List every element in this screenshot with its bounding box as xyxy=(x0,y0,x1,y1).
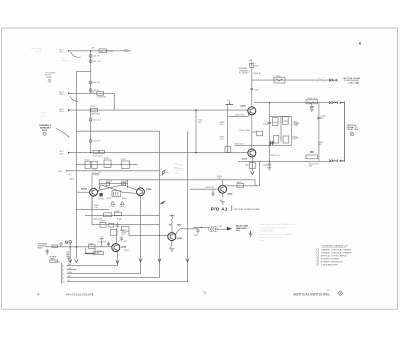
SEC6: bottom connector, legend, titles xyxy=(37,243,352,296)
svg-text:Q334: Q334 xyxy=(227,192,233,195)
wire Q328 collector xyxy=(116,228,118,244)
wire upper signal xyxy=(254,102,331,104)
resistor R126 xyxy=(104,158,111,167)
node xyxy=(269,145,270,146)
wire upper output xyxy=(252,79,331,81)
svg-text:NUMBERED DIAGRAM LIST: NUMBERED DIAGRAM LIST xyxy=(322,245,349,248)
svg-text:CR130: CR130 xyxy=(98,198,105,200)
ground C318 xyxy=(267,168,271,170)
svg-text:Scanned and submitted to BAMA: Scanned and submitted to BAMA archive xyxy=(259,223,296,226)
wire lower gate bar xyxy=(99,183,127,185)
power +15 rail label xyxy=(68,174,75,181)
wire grid top xyxy=(269,116,291,118)
wire Q336 base xyxy=(129,234,168,236)
capacitor C322 xyxy=(306,151,319,167)
test jack TP2 xyxy=(69,240,72,247)
registration cross xyxy=(37,293,40,296)
svg-text:<2>): <2>) xyxy=(236,229,241,232)
resistor R118 xyxy=(96,92,107,99)
wire Q336 emitter xyxy=(171,241,173,247)
faint pencil note top-left xyxy=(31,48,42,54)
capacitor C318 xyxy=(263,161,272,167)
label NORMAL CHANNEL xyxy=(239,67,251,74)
SEC5: right output network xyxy=(254,98,359,242)
svg-text:GND DC: GND DC xyxy=(62,60,70,62)
wire hook xyxy=(128,231,130,235)
switch knob symbol xyxy=(43,132,46,135)
connector J1 CH1 input label xyxy=(59,49,64,53)
inductor L338 xyxy=(169,215,175,225)
inductor L310 xyxy=(274,76,285,83)
wire corner xyxy=(92,172,99,174)
node xyxy=(90,50,91,51)
legend row 1 xyxy=(317,248,352,251)
wire Q318 base xyxy=(77,191,90,193)
wire CH1 input xyxy=(69,50,131,52)
wire lower output xyxy=(238,160,331,162)
label T50 xyxy=(169,223,183,226)
resistor R136 xyxy=(115,212,123,220)
svg-text:T340: T340 xyxy=(177,223,183,226)
capacitor C44 xyxy=(89,60,101,63)
wire into Q336 xyxy=(171,225,173,233)
arrow drop Q326 xyxy=(139,259,142,262)
svg-text:43A,B: 43A,B xyxy=(81,188,87,191)
svg-text:(-8V): (-8V) xyxy=(120,206,125,208)
node xyxy=(66,170,67,171)
wire Q334 base xyxy=(190,188,219,190)
transistor Q328 xyxy=(112,244,120,252)
svg-text:CHANNEL 2 VERTICAL PREAMP: CHANNEL 2 VERTICAL PREAMP xyxy=(321,251,352,254)
svg-text:A SWEEP GENERATOR: A SWEEP GENERATOR xyxy=(321,260,344,263)
arrow drop Q328 xyxy=(116,260,119,263)
wire CH2 lower bus xyxy=(69,152,248,154)
svg-text:R306 C306: R306 C306 xyxy=(240,130,251,132)
capacitor C150 xyxy=(120,236,128,243)
svg-text:DELAY LINE: DELAY LINE xyxy=(347,128,359,131)
svg-text:tek ocr: tek ocr xyxy=(259,239,265,242)
capacitor C302 label xyxy=(198,120,204,124)
svg-text:VERTICAL OUTPUT AMPLIF: VERTICAL OUTPUT AMPLIF xyxy=(321,254,348,257)
node xyxy=(159,235,160,236)
wire row C xyxy=(92,224,160,226)
svg-text:Q328: Q328 xyxy=(121,246,127,248)
label R304 xyxy=(220,122,226,126)
resistor R317 xyxy=(245,163,255,169)
resistor R138 xyxy=(109,223,114,227)
switch flag S140 xyxy=(159,201,166,205)
svg-text:464 OSCILLOSCOPE: 464 OSCILLOSCOPE xyxy=(66,292,94,296)
resistor R125 xyxy=(92,161,97,168)
resistor R120 xyxy=(90,108,101,115)
ground C316 xyxy=(310,109,314,111)
capacitor C46 xyxy=(89,81,100,84)
wire CH1 to amp xyxy=(69,92,114,94)
legend row 5 xyxy=(317,260,344,263)
resistor R48 xyxy=(99,49,106,53)
label R318 xyxy=(294,123,300,127)
wire gate bar drops xyxy=(99,180,127,188)
capacitor C148 xyxy=(107,241,110,247)
svg-text:Q304: Q304 xyxy=(240,105,246,108)
svg-text:TRIGGER PREAMP: TRIGGER PREAMP xyxy=(321,257,340,260)
wire row B xyxy=(85,214,160,216)
wire divider drop xyxy=(195,110,197,153)
wire emitter chain xyxy=(251,115,253,149)
svg-text:CHANNEL 1 VERTICAL PREAMP: CHANNEL 1 VERTICAL PREAMP xyxy=(321,248,352,251)
label cluster gray xyxy=(175,168,185,174)
svg-text:C123 C125: C123 C125 xyxy=(92,155,103,157)
resistor R130 xyxy=(112,191,121,197)
node xyxy=(269,102,270,103)
capacitor C145 xyxy=(66,251,72,259)
wire resistor row xyxy=(76,164,137,166)
switch box S146 xyxy=(50,260,58,262)
transistor Q326 xyxy=(137,188,145,196)
svg-text:CR129: CR129 xyxy=(121,181,128,183)
node xyxy=(269,161,270,162)
bus signal labels xyxy=(68,264,73,282)
resistor R313 xyxy=(283,136,289,143)
resistor R307 xyxy=(225,146,231,152)
legend row 2 xyxy=(317,251,352,254)
svg-text:cal 2mV: cal 2mV xyxy=(34,52,42,54)
svg-text:C122 2-8: C122 2-8 xyxy=(93,120,102,122)
svg-text:S130: S130 xyxy=(42,130,48,132)
svg-text:C42 18: C42 18 xyxy=(93,56,100,58)
wire cross couple A xyxy=(97,185,137,191)
svg-text:Date: April 2003: Date: April 2003 xyxy=(259,230,274,233)
capacitor C139 xyxy=(116,223,119,228)
wire collector to rail xyxy=(227,161,260,185)
node xyxy=(70,246,71,247)
node xyxy=(195,109,197,111)
svg-text:maintained by Jeff, tek manual: maintained by Jeff, tek manuals xyxy=(259,226,287,229)
capacitor C48 xyxy=(89,89,100,92)
interconnect bracket xyxy=(340,101,345,162)
wire drop xyxy=(113,93,115,110)
diode CR129 xyxy=(121,181,128,186)
capacitor C122 xyxy=(89,118,102,121)
diode CR132 xyxy=(120,201,124,204)
wire CH2 bus xyxy=(69,109,248,111)
SEC1: top-left attenuator xyxy=(31,48,248,259)
capacitor C320 xyxy=(317,116,326,120)
capacitor C123 xyxy=(92,150,104,157)
pencil scribble xyxy=(173,164,184,169)
wire Q334 labels above xyxy=(217,176,223,180)
connector J2 CH1 out label xyxy=(59,92,64,96)
wire Q318 emitter xyxy=(91,196,93,209)
transistor Q318 xyxy=(90,188,98,196)
wire grid right rail xyxy=(290,117,292,146)
label cluster xyxy=(92,170,101,173)
label norm trig xyxy=(50,257,57,261)
label R316 right xyxy=(293,136,299,140)
svg-text:Q314: Q314 xyxy=(242,157,248,160)
svg-text:Note that the images are for p: Note that the images are for personal xyxy=(259,233,293,236)
svg-text:R303 750: R303 750 xyxy=(236,114,246,116)
wire row A xyxy=(76,208,109,210)
svg-text:1.8k: 1.8k xyxy=(217,178,221,180)
wire Q334 emitter xyxy=(222,193,224,197)
capacitor C312 xyxy=(269,141,274,145)
inductor R316 L316 xyxy=(306,98,318,104)
resistor R127 xyxy=(121,159,129,168)
label VOLTS/DIV switch xyxy=(45,72,56,82)
svg-text:VERTICAL PREAMP BOARD: VERTICAL PREAMP BOARD xyxy=(234,208,261,211)
transistor Q304 xyxy=(248,107,256,115)
svg-text:1x: 1x xyxy=(99,172,101,174)
wire bus 5 xyxy=(67,281,188,283)
capacitor C138 xyxy=(100,221,106,228)
svg-text:S145: S145 xyxy=(38,247,44,249)
wire Q314 emitter xyxy=(251,157,253,171)
node xyxy=(90,152,91,153)
diode CR130 xyxy=(98,193,105,200)
inductor L134 xyxy=(92,213,111,221)
SEC2: gate cluster xyxy=(68,131,255,282)
wire lower row xyxy=(67,170,160,172)
svg-text:(+15V): (+15V) xyxy=(109,206,115,208)
capacitor C340 xyxy=(194,229,200,237)
node xyxy=(68,152,70,154)
inductor L146 xyxy=(88,244,95,249)
board divider bar xyxy=(231,206,233,211)
wire grid bottom xyxy=(235,144,292,146)
capacitor C144 xyxy=(46,249,49,255)
node xyxy=(76,246,77,247)
switch label VERT MODE xyxy=(39,124,52,132)
arrow rail left A xyxy=(69,259,72,262)
label test point xyxy=(94,205,100,209)
resistor R150 xyxy=(110,230,125,237)
legend row 6 xyxy=(317,263,339,266)
resistor R320 xyxy=(318,142,324,146)
wire grid left rail xyxy=(268,103,270,162)
svg-text:mod sweep: mod sweep xyxy=(31,48,42,50)
test jack J145 xyxy=(60,243,62,247)
resistor R336 xyxy=(237,182,244,188)
connector P130 body xyxy=(61,263,63,284)
switch wiper arc S110 xyxy=(71,52,81,57)
legend row 3 xyxy=(317,254,348,257)
connector arrows upper xyxy=(329,79,337,82)
connector J3 CH2 input label xyxy=(59,109,64,113)
ground Q334 xyxy=(221,202,225,204)
svg-text:Q336: Q336 xyxy=(177,238,183,240)
wire bus 4 xyxy=(67,277,160,279)
svg-text:R332 133: R332 133 xyxy=(205,187,215,189)
capacitor C124 xyxy=(89,140,101,143)
wire divider rail xyxy=(318,103,320,161)
wire grid mid rail xyxy=(280,117,282,142)
capacitor C332 xyxy=(212,189,215,196)
connector arrows lower right xyxy=(329,159,337,162)
wire to delay line xyxy=(217,228,227,230)
svg-text:R309 150: R309 150 xyxy=(235,144,245,146)
svg-text:1 MΩ: 1 MΩ xyxy=(41,113,46,115)
node xyxy=(201,227,202,228)
svg-text:Z AXIS AMPLIFIER: Z AXIS AMPLIFIER xyxy=(321,263,339,266)
svg-text:C120 R120: C120 R120 xyxy=(90,114,101,116)
switch wiper arc xyxy=(56,129,70,138)
wire Q334 collector up xyxy=(222,180,224,185)
SEC4: Q304 Q314 output column xyxy=(190,60,362,211)
svg-text:Q326: Q326 xyxy=(146,189,152,191)
resistor R312 xyxy=(274,135,279,143)
connector P340 coax pair xyxy=(209,226,218,231)
transistor Q334 xyxy=(219,185,227,193)
svg-text:C124 8.2: C124 8.2 xyxy=(93,141,102,143)
resistor R140 xyxy=(121,226,129,234)
svg-text:P/O A1: P/O A1 xyxy=(211,207,228,212)
arrow to delay line xyxy=(227,227,232,231)
wire bias rail xyxy=(226,105,228,153)
wire bus 1 xyxy=(67,265,118,267)
label VERTICAL SIGNAL xyxy=(347,124,359,131)
faint pencil note xyxy=(41,113,47,118)
stamp pencil block xyxy=(259,223,296,242)
arrow rail left B xyxy=(75,259,78,262)
svg-text:CR128: CR128 xyxy=(106,181,113,183)
ground shield xyxy=(249,231,253,236)
legend title xyxy=(322,245,349,248)
wire Q304 base xyxy=(227,113,248,116)
label trigger source xyxy=(38,243,48,249)
wire delay stub xyxy=(193,226,210,228)
svg-text:use only and not for resale: use only and not for resale xyxy=(259,236,283,239)
wire Q336 collector xyxy=(175,229,198,235)
wire bus 2 xyxy=(67,269,77,271)
svg-text:VERTICAL SWITCHING: VERTICAL SWITCHING xyxy=(293,292,330,296)
wire rail left B drop xyxy=(69,243,71,263)
capacitor C40 on input wire xyxy=(105,50,128,52)
ground Q336 xyxy=(170,249,175,251)
wire rail Q326 drop xyxy=(140,196,142,274)
label C314 right xyxy=(293,121,300,125)
wire upper gate bar xyxy=(99,179,255,181)
power +15 stub xyxy=(99,237,103,247)
test jack TP1 xyxy=(65,241,68,244)
transistor Q336 xyxy=(168,233,176,241)
label DELAY LINE xyxy=(236,224,249,232)
symbol coax xyxy=(350,132,354,136)
label above connector xyxy=(66,253,70,257)
resistor R314 xyxy=(272,117,278,125)
resistor R154 xyxy=(85,252,104,255)
wire rail center xyxy=(187,131,189,282)
faint pencil note xyxy=(62,57,70,63)
arrow drop rail188 xyxy=(186,259,189,262)
svg-text:(SEL): (SEL) xyxy=(175,172,180,174)
wire cross couple B xyxy=(97,185,137,194)
board edge wire xyxy=(76,131,159,278)
node CH1 xyxy=(68,50,70,52)
arrow drop rail160 xyxy=(158,259,161,262)
wire Q328 base line xyxy=(46,246,112,248)
svg-text:(V. MODE): (V. MODE) xyxy=(239,73,249,75)
test point flag TP130 xyxy=(162,171,169,175)
svg-text:2.4k: 2.4k xyxy=(220,139,224,141)
capacitor C314 xyxy=(263,122,271,125)
wire rail x92 xyxy=(91,173,93,224)
svg-text:R308 1k: R308 1k xyxy=(253,73,260,75)
page mark top right xyxy=(359,42,360,44)
connector arrows upper right xyxy=(329,101,337,104)
label VERT SIG A xyxy=(343,77,362,85)
SEC3: Q328 / Q336 / delay xyxy=(38,164,253,274)
svg-text:TRIG: TRIG xyxy=(50,259,55,261)
label below diodes xyxy=(109,206,124,208)
wire bus 3 xyxy=(67,273,141,275)
registration mark left xyxy=(204,291,206,293)
capacitor C42 xyxy=(89,54,100,57)
capacitor C308 xyxy=(250,88,259,91)
connector J4 CH2 label xyxy=(59,151,64,155)
svg-text:20 pF: 20 pF xyxy=(41,116,47,118)
svg-text:1.5k: 1.5k xyxy=(94,207,98,209)
svg-text:C46 2-8: C46 2-8 xyxy=(93,82,101,84)
ferrite bead mark xyxy=(318,77,324,81)
resistor R306 xyxy=(240,130,263,136)
svg-text:R319 4.7k: R319 4.7k xyxy=(271,155,280,157)
transistor Q314 xyxy=(248,149,256,157)
wire +15 feed xyxy=(251,62,253,107)
svg-text:C44 .5-3: C44 .5-3 xyxy=(93,61,102,63)
diode CR131 xyxy=(111,201,115,204)
wire left rail xyxy=(75,72,77,259)
node xyxy=(195,152,197,154)
label R305 xyxy=(220,136,226,140)
power -8V arrow xyxy=(251,171,255,174)
node xyxy=(90,109,91,110)
svg-text:R148 301: R148 301 xyxy=(98,242,108,244)
svg-text:C118 R118: C118 R118 xyxy=(96,97,107,99)
svg-text:6.2k: 6.2k xyxy=(220,124,224,126)
legend row 4 xyxy=(317,257,340,260)
capacitor C147 box xyxy=(85,248,102,255)
node CH2 xyxy=(68,109,70,111)
svg-text:1M: 1M xyxy=(100,51,103,53)
resistor R310 xyxy=(250,63,260,67)
symbol diamond xyxy=(338,291,343,296)
node xyxy=(68,93,70,95)
switch wiper arc CH2 xyxy=(70,97,78,102)
resistor R315 xyxy=(283,116,289,124)
wire link to left rail xyxy=(76,71,90,73)
capacitor C316 xyxy=(310,104,314,109)
diode CR128 xyxy=(106,181,113,186)
resistor R144 xyxy=(52,245,58,248)
wire attenuator chain xyxy=(90,51,92,94)
resistor R124 xyxy=(85,159,91,168)
wire Q328 emitter xyxy=(117,252,119,266)
wire CH2 chain xyxy=(90,110,92,153)
svg-text:L R128: L R128 xyxy=(93,175,100,177)
resistor R302 +15 xyxy=(225,100,233,104)
